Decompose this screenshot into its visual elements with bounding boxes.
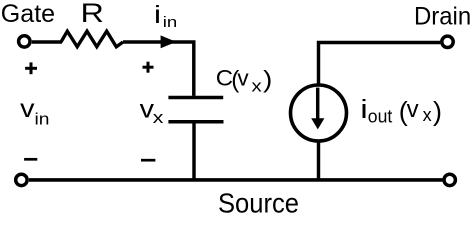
source rail wire bbox=[29, 178, 443, 182]
svg-text:out: out bbox=[368, 107, 393, 127]
minus sign v_in bbox=[24, 158, 37, 161]
svg-text:in: in bbox=[163, 14, 178, 31]
terminal Gate bbox=[19, 36, 30, 47]
capacitor C top plate bbox=[168, 96, 223, 100]
svg-text:Drain: Drain bbox=[414, 2, 471, 30]
label i_in bbox=[154, 1, 177, 31]
wire gate to resistor bbox=[32, 40, 62, 43]
wire drain corner to current source bbox=[319, 43, 441, 85]
terminal Drain bbox=[442, 36, 453, 47]
svg-text:i: i bbox=[154, 1, 161, 29]
current arrow i_in bbox=[161, 35, 177, 48]
label v_x bbox=[140, 95, 164, 127]
svg-text:R: R bbox=[81, 0, 104, 28]
plus sign v_x bbox=[143, 62, 154, 73]
svg-text:x: x bbox=[252, 76, 263, 95]
capacitor C bottom plate bbox=[168, 120, 223, 124]
svg-text:x: x bbox=[153, 109, 164, 128]
svg-text:v: v bbox=[20, 95, 35, 123]
svg-text:x: x bbox=[423, 105, 432, 125]
svg-text:v: v bbox=[237, 65, 249, 90]
svg-text:): ) bbox=[263, 67, 272, 93]
label v_in bbox=[20, 95, 49, 129]
wire capacitor to source rail bbox=[192, 122, 195, 182]
terminal source left bbox=[16, 174, 27, 185]
svg-text:v: v bbox=[407, 96, 419, 123]
svg-text:in: in bbox=[35, 111, 50, 129]
wire resistor to capacitor corner, down to capacitor bbox=[123, 42, 194, 96]
plus sign v_in bbox=[25, 62, 37, 74]
terminal source right bbox=[444, 174, 455, 185]
svg-text:Gate: Gate bbox=[1, 0, 55, 28]
minus sign v_x bbox=[141, 159, 155, 162]
wire current source to source rail bbox=[317, 142, 320, 182]
current source arrow bbox=[311, 88, 324, 130]
svg-text:Source: Source bbox=[218, 187, 299, 215]
svg-text:): ) bbox=[433, 97, 442, 127]
resistor R bbox=[61, 31, 123, 47]
label i_out (v_x) bbox=[360, 96, 442, 127]
label C(v_x) bbox=[216, 65, 273, 95]
svg-text:i: i bbox=[360, 96, 368, 124]
current source U1 circle bbox=[291, 85, 347, 141]
